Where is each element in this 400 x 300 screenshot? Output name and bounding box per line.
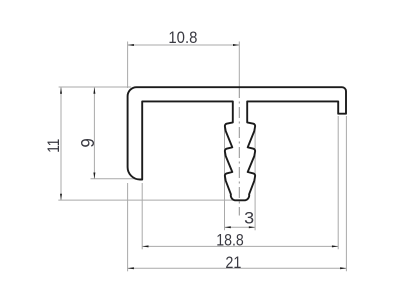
extension line: top edge left (for 11 and 9) — [59, 86, 131, 88]
extension line: barb center above profile (for 10.8) — [238, 42, 240, 88]
dimension line 10.8 (top) — [128, 44, 240, 46]
profile outline (aluminium extrusion cross-section) — [128, 87, 346, 200]
extension line: left leg inner edge below profile (for 18.8) — [141, 183, 143, 249]
dimension text 9 (rotated) — [78, 138, 98, 148]
dimension text 18.8 — [216, 232, 244, 250]
extension line: right inner step below profile (for 18.8) — [337, 116, 339, 249]
extension line: barb left tip below profile (for 3) — [224, 126, 226, 231]
centerline of barbed leg (dash-dot) — [238, 87, 240, 216]
extension line: left outer edge above profile (for 10.8) — [127, 42, 129, 89]
dimension text 11 (rotated) — [45, 139, 63, 153]
dimension line 21 (bottom overall) — [128, 267, 347, 269]
extension line: barb bottom (for 11) — [58, 199, 240, 201]
extension line: barb right tip below profile (for 3) — [254, 126, 256, 231]
extension line: left outer edge below profile (for 21) — [127, 183, 129, 271]
extension line: left leg bottom (for 9) — [91, 178, 136, 180]
dimension line 18.8 (bottom) — [142, 245, 338, 247]
svg-text:11: 11 — [45, 139, 63, 153]
dimension line 11 (left) — [60, 87, 62, 200]
svg-text:10.8: 10.8 — [168, 29, 197, 47]
svg-text:9: 9 — [78, 138, 98, 148]
svg-text:18.8: 18.8 — [216, 232, 244, 250]
dimension text 10.8 — [168, 29, 197, 47]
svg-text:21: 21 — [225, 254, 241, 272]
dimension line 3 (bottom small) — [225, 226, 256, 228]
dimension line 9 (left inner) — [93, 87, 95, 178]
svg-text:3: 3 — [244, 210, 254, 228]
dimension text 3 — [244, 210, 254, 228]
dimension text 21 — [225, 254, 241, 272]
extension line: right outer edge below profile (for 21) — [345, 116, 347, 271]
